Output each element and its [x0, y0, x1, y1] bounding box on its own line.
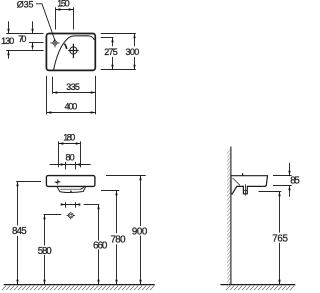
inner line	[233, 178, 240, 185]
basin front body	[46, 176, 95, 187]
svg-text:Ø35: Ø35	[17, 0, 34, 9]
dim 900	[140, 176, 142, 227]
svg-text:660: 660	[93, 241, 108, 252]
basin outer rect	[46, 34, 95, 71]
svg-text:845: 845	[12, 226, 27, 237]
svg-text:85: 85	[290, 176, 300, 187]
inner water line	[60, 187, 84, 190]
bowl outline	[54, 36, 95, 71]
arrows 400	[47, 111, 52, 113]
dim 780	[116, 190, 118, 233]
dim 130 arrows shafts	[8, 21, 10, 33]
dim 85	[273, 175, 292, 177]
svg-text:275: 275	[104, 47, 118, 57]
arrows 70	[31, 29, 33, 34]
arrows 300	[133, 34, 135, 39]
dim 335	[53, 92, 96, 94]
underside trapezoid	[57, 186, 86, 192]
dim 400	[47, 112, 96, 114]
ext 580	[44, 214, 62, 216]
arrows small dim	[61, 203, 66, 205]
dim 580	[44, 215, 46, 246]
svg-text:765: 765	[272, 233, 288, 244]
arrows 130	[7, 29, 9, 34]
svg-text:300: 300	[126, 47, 140, 57]
dim 300	[134, 34, 136, 47]
dim 80 line	[50, 164, 91, 166]
svg-text:180: 180	[63, 133, 75, 143]
dim 275	[112, 38, 114, 47]
faucet cross front	[55, 181, 61, 183]
ext 780	[101, 190, 119, 192]
dim 845	[17, 182, 19, 226]
overflow tick	[65, 44, 67, 49]
dim 765	[259, 191, 282, 193]
bottom ext lines	[52, 77, 54, 94]
arrows 275	[111, 38, 113, 43]
svg-text:80: 80	[66, 153, 75, 163]
svg-text:70: 70	[18, 34, 26, 44]
tap tick	[242, 173, 244, 175]
dim 660	[98, 205, 100, 241]
right ext lines	[101, 33, 136, 35]
arrows verticals	[16, 182, 18, 187]
leader arrow	[53, 39, 55, 42]
arrows 150	[56, 8, 61, 10]
ext 900	[106, 175, 146, 177]
svg-text:580: 580	[38, 246, 53, 257]
left ext lines	[6, 33, 43, 35]
arrows 80 outside	[61, 163, 66, 165]
small dim near 660 level	[62, 204, 78, 206]
arrows 180	[59, 142, 64, 144]
svg-text:400: 400	[65, 101, 78, 111]
floor side	[220, 284, 295, 286]
leader Ø35	[36, 4, 55, 41]
svg-text:900: 900	[132, 226, 148, 237]
dim 70 arrows shafts	[32, 21, 34, 33]
wall	[230, 147, 232, 285]
svg-text:780: 780	[110, 235, 126, 246]
tail cross	[244, 190, 247, 192]
ext 845	[16, 181, 41, 183]
svg-text:150: 150	[57, 0, 69, 9]
svg-text:130: 130	[1, 36, 14, 46]
wall outlet symbol	[67, 214, 75, 216]
faucet hole	[53, 41, 57, 45]
svg-text:335: 335	[66, 82, 80, 92]
ext 660	[84, 204, 100, 206]
dim 150	[55, 7, 57, 29]
basin side profile	[231, 176, 268, 194]
floor front	[4, 284, 155, 286]
drain	[70, 47, 77, 54]
arrows 335	[53, 91, 58, 93]
dim 180	[58, 141, 60, 167]
